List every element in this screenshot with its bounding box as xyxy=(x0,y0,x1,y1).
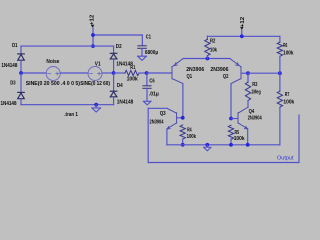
wire +12 right rail xyxy=(207,35,280,37)
resistor R6 xyxy=(279,36,281,42)
node junction (96,105) xyxy=(94,103,98,107)
diode D3 xyxy=(20,73,22,92)
node junction (182.7,144.8) xyxy=(181,143,185,147)
svg-text:1N4148: 1N4148 xyxy=(117,99,134,105)
svg-text:100k: 100k xyxy=(283,51,293,57)
node junction (248,73.2) xyxy=(246,71,250,75)
wire Q4 emitter drop xyxy=(247,129,249,145)
svg-text:D4: D4 xyxy=(117,83,123,89)
svg-text:1Meg: 1Meg xyxy=(251,90,260,96)
svg-text:100k: 100k xyxy=(187,134,196,140)
svg-text:100k: 100k xyxy=(283,100,294,106)
capacitor C6 xyxy=(146,73,148,85)
svg-text:Noise: Noise xyxy=(46,59,59,65)
wire V1 to D2/D4 junction xyxy=(102,72,114,74)
resistor R1 xyxy=(114,72,125,74)
wire Noise to V1 xyxy=(60,72,88,74)
ground below C1 xyxy=(138,56,147,60)
node junction (182.7,117.8) xyxy=(181,116,185,120)
svg-text:6800µ: 6800µ xyxy=(145,50,158,56)
wire bottom-left rail xyxy=(21,104,114,106)
svg-text:R6: R6 xyxy=(283,43,287,49)
resistor R3 xyxy=(247,73,249,82)
svg-text:1N4148: 1N4148 xyxy=(1,101,17,107)
wire bottom rail xyxy=(167,144,280,146)
svg-text:D1: D1 xyxy=(12,43,17,49)
wire C6 to ground xyxy=(146,89,148,102)
wire top rail Q1-Q2 xyxy=(183,58,230,60)
wire output left drop xyxy=(147,108,149,162)
wire C1 to ground xyxy=(141,49,143,56)
diode D1 xyxy=(20,46,22,54)
wire Q2 collector drop xyxy=(230,84,232,119)
wire cross to R6/R7 node xyxy=(248,72,280,74)
svg-text:1N4148: 1N4148 xyxy=(1,63,17,69)
node junction (207.4,58.5) xyxy=(206,57,210,61)
wire D3 to bottom rail xyxy=(20,99,22,105)
wire junction to D4 xyxy=(113,73,115,91)
svg-text:R4: R4 xyxy=(187,127,192,133)
svg-text:Q1: Q1 xyxy=(187,74,193,80)
wire Q1 base xyxy=(147,72,172,74)
svg-text:C6: C6 xyxy=(149,78,154,84)
node +12 right flag xyxy=(240,17,246,30)
diode D2 xyxy=(110,53,117,59)
svg-text:2N3904: 2N3904 xyxy=(248,116,262,122)
diode D4 xyxy=(110,91,117,97)
svg-text:R7: R7 xyxy=(285,92,290,98)
svg-text:Q4: Q4 xyxy=(249,109,255,115)
svg-text:.tran 1: .tran 1 xyxy=(64,112,78,118)
wire C1 lead xyxy=(141,35,143,45)
wire Q2 base stub xyxy=(241,72,248,74)
ground below bottom rail xyxy=(204,145,211,151)
svg-text:+12: +12 xyxy=(240,17,246,27)
node junction (207.3,144.8) xyxy=(205,143,209,147)
wire mid rail left xyxy=(21,72,46,74)
node junction (146.6,73) xyxy=(145,71,149,75)
node junction (247.7,144.8) xyxy=(246,143,250,147)
resistor R7 xyxy=(279,73,281,91)
node +12 left flag xyxy=(89,15,95,28)
svg-text:Output: Output xyxy=(277,155,294,161)
svg-text:V1: V1 xyxy=(95,62,101,68)
resistor R5 xyxy=(228,125,233,139)
svg-text:R2: R2 xyxy=(210,39,215,45)
resistor R2 xyxy=(206,36,208,39)
svg-text:2N3906: 2N3906 xyxy=(210,67,228,73)
wire D4 to bottom rail xyxy=(113,97,115,105)
svg-text:100k: 100k xyxy=(234,136,245,142)
svg-text:C1: C1 xyxy=(146,35,151,41)
svg-text:.01µ: .01µ xyxy=(149,91,159,97)
transistor Q4 (2N3904 NPN) xyxy=(238,107,248,129)
wire D1 to mid rail xyxy=(20,60,22,73)
svg-text:100k: 100k xyxy=(127,77,138,83)
node junction (241.8,36.3) xyxy=(240,34,244,38)
svg-text:2N3904: 2N3904 xyxy=(150,120,164,126)
wire top rail D1-D2 xyxy=(21,45,114,47)
wire output bottom rail xyxy=(148,162,299,164)
wire D2 to junction xyxy=(113,59,115,73)
wire output node horizontal to Q3 collector xyxy=(148,107,167,109)
node junction (21,73) xyxy=(19,71,23,75)
wire Q1 collector drop xyxy=(182,84,184,118)
svg-text:D2: D2 xyxy=(116,44,122,50)
svg-text:SINE(0 20 500 .4 0 0 5): SINE(0 20 500 .4 0 0 5) xyxy=(26,81,80,87)
ground below bottom-left rail xyxy=(92,105,101,112)
voltage source V1 xyxy=(88,67,102,81)
node junction (93,35) xyxy=(91,33,95,37)
svg-text:R1: R1 xyxy=(130,65,135,71)
transistor Q1 (2N3906 PNP) xyxy=(172,59,183,84)
svg-text:Q3: Q3 xyxy=(160,111,166,117)
ground below C6 xyxy=(143,101,151,105)
node junction (93,46) xyxy=(91,44,95,48)
svg-text:SINE(0 12 60): SINE(0 12 60) xyxy=(80,81,110,87)
node junction (231,144.8) xyxy=(229,143,233,147)
transistor Q2 (2N3906 PNP mirrored) xyxy=(230,59,241,84)
svg-text:D3: D3 xyxy=(10,81,15,87)
svg-text:10k: 10k xyxy=(210,48,217,54)
node junction (231,118.5) xyxy=(229,117,233,121)
wire +12 right drop xyxy=(241,30,243,36)
capacitor C1 xyxy=(138,46,147,49)
wire output right stub xyxy=(298,115,300,163)
wire +12 left drop xyxy=(92,28,94,46)
node junction (279.9,73.2) xyxy=(278,71,282,75)
wire Q3 emitter drop xyxy=(166,129,168,145)
node junction (114,73) xyxy=(112,71,116,75)
svg-text:+12: +12 xyxy=(89,15,95,25)
svg-text:2N3906: 2N3906 xyxy=(186,67,204,73)
resistor R4 xyxy=(180,125,185,139)
transistor Q3 (2N3904 NPN mirrored) xyxy=(167,108,177,129)
wire D2 drop from top rail xyxy=(113,46,115,53)
svg-text:Q2: Q2 xyxy=(223,74,229,80)
voltage source Noise xyxy=(46,67,60,81)
svg-text:R3: R3 xyxy=(252,82,257,88)
wire +12 left rail to C1 xyxy=(93,34,142,36)
